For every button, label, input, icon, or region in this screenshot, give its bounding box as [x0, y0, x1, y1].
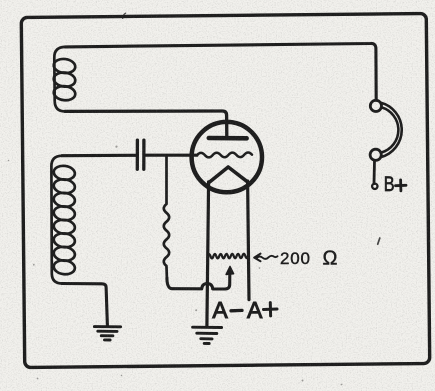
- secondary coil L2: [51, 156, 75, 284]
- ground G1: [94, 327, 120, 340]
- wire: top rail (tickler top to phones): [65, 43, 376, 100]
- V1 grid: [197, 152, 252, 157]
- B+ terminal dot: [372, 184, 377, 189]
- wire: phones to B+ terminal: [373, 161, 376, 184]
- stray scan mark right: [378, 238, 380, 244]
- grid leak resistor R1: [164, 155, 169, 278]
- scan specks: [8, 146, 431, 386]
- grid coupling capacitor C1: [137, 140, 144, 169]
- rheostat arm arrowhead: [226, 266, 234, 274]
- wire: L2 bottom to ground: [62, 284, 107, 326]
- V1 filament: [210, 167, 247, 182]
- label plus of A+: [264, 303, 278, 316]
- wire: R1 bottom to rheostat arm (hop over A- lead): [167, 274, 230, 289]
- wire: filament right lead to A+: [248, 181, 249, 300]
- triode V1 envelope: [192, 122, 262, 192]
- label dash of A-: [231, 309, 242, 313]
- tickler coil L1: [53, 47, 76, 112]
- wire: filament left lead to ground / A-: [207, 182, 209, 326]
- stray scan mark top: [123, 13, 127, 18]
- wire: secondary top to C1: [62, 154, 136, 157]
- phones P1 horn arcs: [381, 103, 402, 158]
- ground G2: [193, 327, 222, 343]
- V1 plate: [209, 136, 247, 141]
- label plus of B+: [396, 180, 407, 191]
- phones P1 top terminal: [370, 100, 381, 111]
- filament rheostat R2: [208, 254, 249, 259]
- phones P1 bottom terminal: [370, 149, 381, 160]
- wire: tickler bottom to plate: [65, 111, 227, 136]
- wire: C1 to grid: [146, 154, 197, 157]
- value label pointer arrow (to R2): [254, 254, 277, 262]
